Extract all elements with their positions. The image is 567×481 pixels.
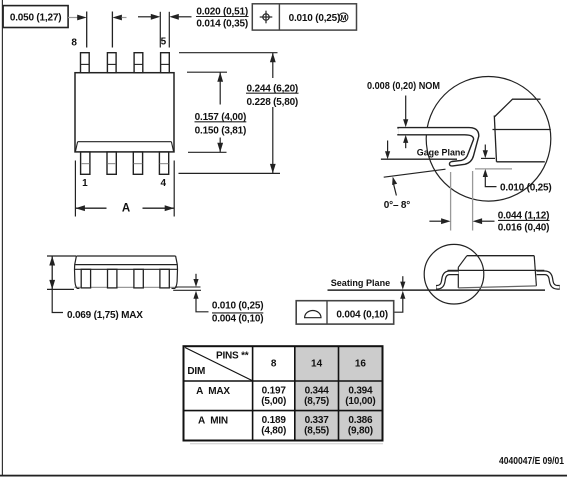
body bottom line in detail [497,161,545,163]
svg-text:(8,75): (8,75) [304,396,329,407]
svg-text:0.010 (0,25): 0.010 (0,25) [500,183,552,194]
gage plane line [381,158,457,160]
front view lead 4 [160,269,169,288]
pin 5 (top) [161,53,170,73]
seating plane symbol (dome) [305,311,321,318]
arrow pointing left at pin5 right edge [169,14,179,20]
svg-text:0.016 (0,40): 0.016 (0,40) [498,222,550,233]
down arrow [195,274,197,280]
svg-text:0.050 (1,27): 0.050 (1,27) [10,12,62,23]
svg-text:0.014 (0,35): 0.014 (0,35) [196,18,248,29]
lead open end eraser [397,129,399,134]
side view right lead [537,273,560,288]
svg-text:8: 8 [271,358,277,369]
pin 4 (bottom) [159,152,168,174]
dim line with arrows [51,256,53,289]
svg-text:(5,00): (5,00) [261,396,286,407]
top view body strip bevel left [75,142,77,152]
seating plane up arrow with leader [400,291,405,299]
pin 7 (top) [107,53,116,73]
front view body top line [76,255,175,257]
svg-text:0.386: 0.386 [348,415,373,426]
extension line pin8 center [86,12,88,48]
pin 1 (bottom) [81,152,90,174]
up arrow with leader [193,291,198,299]
svg-text:5: 5 [161,37,167,48]
top view body [75,73,174,152]
svg-text:(10,00): (10,00) [345,396,375,407]
svg-text:0.394: 0.394 [348,385,373,396]
front view lead 3 [134,269,143,288]
extension line body right [173,161,175,217]
extension line pin7 center [111,12,113,48]
side view body top [467,255,534,257]
gage plane arrow [387,141,389,152]
position symbol [260,11,273,24]
front view lead 1 [81,269,90,288]
svg-text:(9,80): (9,80) [348,425,373,436]
front view body bottom line [75,268,178,270]
M modifier circle [339,13,348,22]
svg-text:M: M [341,15,347,22]
seating plane line [173,289,201,291]
leader from box to pin8 centerline [68,17,79,19]
table column lines [252,346,254,440]
body chamfer in detail [494,99,540,117]
svg-text:0.004 (0,10): 0.004 (0,10) [336,309,388,320]
foot plane short line [481,157,495,159]
dim line 0.157 [219,72,221,104]
0.044 dim arrows [429,220,442,222]
body parting line in detail [493,129,551,131]
pin 2 (bottom) [107,152,116,174]
A dim line left [75,207,106,209]
svg-text:0.004 (0,10): 0.004 (0,10) [212,314,264,325]
svg-text:0.010 (0,25): 0.010 (0,25) [212,301,264,312]
arrow pointing right at pin5 left edge [138,16,153,18]
front view body left edge and end cap [75,256,80,288]
extension line top lead tips [179,52,278,54]
extension line pin5 left edge [159,12,161,48]
svg-text:0.228 (5,80): 0.228 (5,80) [247,97,299,108]
body left edge in detail [494,116,496,162]
svg-text:0.197: 0.197 [262,385,287,396]
svg-text:(8,55): (8,55) [304,425,329,436]
svg-text:0.008 (0,20) NOM: 0.008 (0,20) NOM [367,81,440,92]
svg-text:0°– 8°: 0°– 8° [384,200,410,211]
side view parting line [448,269,545,271]
faint artifact line under table [190,443,383,445]
leader to label [52,289,63,312]
side view body chamfer [458,256,467,268]
svg-text:Seating Plane: Seating Plane [331,278,391,289]
extension line body top [187,71,227,73]
svg-text:Gage Plane: Gage Plane [417,147,466,158]
extension line body bottom [188,151,227,153]
svg-text:0.189: 0.189 [262,415,287,426]
svg-text:14: 14 [311,358,323,369]
dim box 0.050 (1,27) [3,6,68,28]
side view detail circle [424,244,484,304]
front view body right edge and end cap [172,256,178,288]
svg-text:0.069 (1,75) MAX: 0.069 (1,75) MAX [67,310,143,321]
foot length gray extension lines [450,172,452,231]
dim line 0.244 [272,53,274,78]
table outer border [184,346,383,440]
angled reference line 0-8 deg [384,169,446,177]
svg-text:A: A [122,203,130,215]
pin 3 (bottom) [133,152,142,174]
svg-text:0.337: 0.337 [305,415,330,426]
svg-text:0.150 (3,81): 0.150 (3,81) [195,126,247,137]
side view body right edge [534,256,536,286]
extension line bottom (seating) [47,288,74,290]
seating plane line [328,289,546,291]
svg-text:1: 1 [82,178,88,189]
side view left lead [436,273,459,288]
svg-text:8: 8 [71,37,77,48]
arrow at pin7 centerline pointing left [112,15,122,21]
detail circle [426,77,551,202]
table shaded columns [295,346,383,440]
pin 6 (top) [134,53,143,73]
top view body strip bevel right [171,142,173,152]
svg-text:4040047/E 09/01: 4040047/E 09/01 [499,455,564,467]
side view body bottom [458,286,536,288]
0.010 dim arrows in detail [484,145,486,151]
extension line body left [74,161,76,217]
front view far-row leads gray line [75,286,178,288]
top view body index strip line [78,141,172,143]
seating reference gray line [475,168,512,170]
A dim line right [143,207,175,209]
svg-text:A MAX: A MAX [196,386,230,397]
svg-text:A MIN: A MIN [198,415,228,426]
page border left [1,0,3,476]
front view body second line [75,264,177,266]
front view lead 2 [108,269,117,288]
side view body left edge [457,267,459,288]
flatness feature frame [296,301,394,324]
lead in detail (outlined gull-wing) [398,128,479,166]
svg-text:DIM: DIM [187,366,205,377]
extension line top [47,255,76,257]
svg-text:4: 4 [161,178,167,189]
seating plane down arrow [402,276,404,282]
angle arrow [394,184,397,195]
header diagonal [185,348,252,381]
svg-text:(4,80): (4,80) [261,425,286,436]
svg-text:0.010 (0,25): 0.010 (0,25) [289,13,341,24]
page border bottom [0,475,567,477]
lead tip plane line [175,286,201,288]
feature control frame box [252,4,356,30]
svg-text:PINS **: PINS ** [216,351,249,362]
pin 8 (top) [81,53,90,73]
extension line bottom lead tips [179,172,281,174]
extension line pin5 right edge [168,12,170,48]
svg-text:16: 16 [355,358,367,369]
svg-text:0.344: 0.344 [305,385,330,396]
table row lines [184,380,383,382]
